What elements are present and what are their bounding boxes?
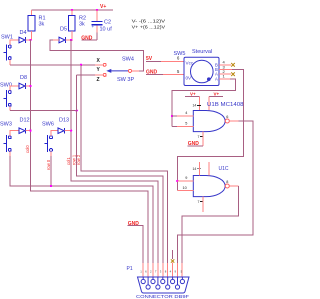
svg-text:C2: C2 <box>104 20 111 26</box>
svg-text:col1: col1 <box>66 157 71 165</box>
svg-text:3: 3 <box>160 270 162 274</box>
svg-text:7: 7 <box>198 135 200 139</box>
svg-text:Z: Z <box>97 77 100 83</box>
svg-text:0V: 0V <box>186 76 193 81</box>
svg-text:SW3: SW3 <box>0 122 12 128</box>
svg-text:D4: D4 <box>20 30 27 36</box>
wire SW0 to D8 <box>10 86 19 91</box>
svg-text:4: 4 <box>170 270 172 274</box>
wire U1B output <box>229 120 238 122</box>
svg-text:P1: P1 <box>127 266 133 272</box>
svg-text:D5: D5 <box>60 27 67 33</box>
node junction D8-col0 <box>29 85 31 87</box>
node junction rail-R2 <box>71 9 73 11</box>
node junction D12-col0 <box>29 130 31 132</box>
svg-text:1: 1 <box>140 270 142 274</box>
wire SW5 pin1 to gates <box>219 78 230 80</box>
wire GND to SW5 pin5 <box>146 74 163 76</box>
node junction encA-U1B.4 <box>171 115 173 117</box>
svg-text:V+ +(6 ...12)V: V+ +(6 ...12)V <box>132 25 166 30</box>
wire SW5 pin4 stub (NC) <box>219 64 231 66</box>
svg-text:7: 7 <box>155 270 157 274</box>
svg-text:row 2: row 2 <box>76 154 81 165</box>
svg-text:3k: 3k <box>79 22 85 28</box>
svg-text:SW5: SW5 <box>174 51 186 57</box>
svg-text:2: 2 <box>150 270 152 274</box>
no-connect X pin4 <box>231 63 235 67</box>
node Z contact circle <box>103 73 106 76</box>
no-connect X pin2 <box>231 72 235 76</box>
wire 5V to SW5 pin6 <box>146 60 161 62</box>
node SW4 common circle <box>129 69 132 72</box>
svg-text:9: 9 <box>185 176 187 180</box>
svg-text:5: 5 <box>177 69 180 74</box>
wire SW3 to D12 <box>10 131 19 136</box>
svg-text:8: 8 <box>226 180 228 184</box>
svg-text:6: 6 <box>226 115 228 119</box>
wire row0 from SW3 <box>9 151 11 156</box>
wire U1C input9 <box>177 180 193 182</box>
svg-text:10 uf: 10 uf <box>100 27 113 33</box>
wire SW0 bottom row1 <box>9 106 11 110</box>
svg-text:V+: V+ <box>214 92 220 97</box>
wire GND stub at C2 <box>81 39 97 41</box>
wire SW4 common stub <box>132 70 140 72</box>
svg-text:V+: V+ <box>100 4 106 10</box>
svg-text:Vcc: Vcc <box>186 61 194 66</box>
wire U1C input10 <box>177 190 193 192</box>
wire col0 vertical <box>31 40 149 263</box>
svg-text:U1B MC1408: U1B MC1408 <box>207 102 244 108</box>
svg-text:14: 14 <box>193 104 197 108</box>
connector body DB9F <box>138 277 190 293</box>
wire SW5 pin3 to U1C inputs 9 and 10 <box>219 69 232 71</box>
node junction row1 <box>76 109 78 111</box>
resistor R2 <box>71 10 73 16</box>
svg-text:Y: Y <box>97 67 101 73</box>
node junction D5-col1 <box>70 39 72 41</box>
svg-text:V- -(6 ...12)V: V- -(6 ...12)V <box>132 19 166 24</box>
wire dangling stub above NC pin <box>172 250 174 259</box>
svg-text:10: 10 <box>183 186 187 190</box>
svg-text:9: 9 <box>175 270 177 274</box>
svg-text:Steurval: Steurval <box>192 49 212 55</box>
wire GND stub to connector <box>128 226 144 263</box>
node junction SW6-row0 <box>50 185 52 187</box>
node junction D13-col1 <box>70 130 72 132</box>
svg-text:3k: 3k <box>39 22 45 28</box>
svg-text:SW4: SW4 <box>122 57 134 63</box>
wire connector pin stubs <box>143 263 182 277</box>
svg-text:CONNECTOR DB9F: CONNECTOR DB9F <box>136 294 189 299</box>
svg-text:14: 14 <box>193 167 197 171</box>
svg-text:D8: D8 <box>20 75 27 81</box>
wire U1B pin7 GND stub <box>202 132 204 147</box>
wire V+ rail <box>32 9 114 11</box>
node junction encB-U1C.9 <box>176 180 178 182</box>
node junction D4-col0 <box>29 39 31 41</box>
svg-text:7: 7 <box>198 200 200 204</box>
wire U1B input5 <box>172 125 177 127</box>
svg-text:A: A <box>215 76 218 81</box>
svg-text:D13: D13 <box>59 118 69 124</box>
svg-text:D12: D12 <box>20 118 30 124</box>
wire U1C vcc stubs <box>199 162 201 176</box>
svg-text:X: X <box>97 58 101 64</box>
wire U1B input4 <box>172 115 177 117</box>
wire U1C output <box>229 185 238 187</box>
svg-text:SW 3P: SW 3P <box>117 77 134 83</box>
svg-text:+: + <box>92 24 95 29</box>
no-connect X on unused DB9 pin <box>171 259 174 262</box>
wire D5 anode loop to SW4 common <box>50 40 144 71</box>
svg-text:U1C: U1C <box>219 166 229 172</box>
resistor R1 <box>31 10 33 16</box>
pin numbers row <box>140 270 182 274</box>
svg-text:6: 6 <box>145 270 147 274</box>
svg-text:row 0: row 0 <box>46 159 51 170</box>
wire SW1 to D4 <box>10 40 19 45</box>
wire U1C gnd stub <box>202 197 204 212</box>
wire Z row to contact <box>77 74 95 76</box>
wire SW5 pin2 stub (NC) <box>219 73 231 75</box>
wire row2 vertical from X line <box>81 65 168 263</box>
node X contact circle <box>103 63 106 66</box>
svg-text:col0: col0 <box>25 145 30 153</box>
wire X row from SW1 <box>9 60 11 65</box>
wire SW6 bottom to row0 <box>50 151 52 156</box>
svg-text:5: 5 <box>185 121 187 125</box>
svg-text:4: 4 <box>185 111 187 115</box>
node junction rail-C2 <box>96 9 98 11</box>
wire SW6 to D13 <box>51 131 58 136</box>
svg-text:SW1: SW1 <box>1 34 13 40</box>
wire col1 vertical <box>71 40 158 263</box>
capacitor C2 <box>96 10 98 21</box>
node junction X-row1 <box>80 64 82 66</box>
wire Z/row1 vertical <box>77 75 163 263</box>
svg-text:8: 8 <box>165 270 167 274</box>
svg-text:V+: V+ <box>190 92 196 97</box>
svg-text:SW6: SW6 <box>42 122 54 128</box>
